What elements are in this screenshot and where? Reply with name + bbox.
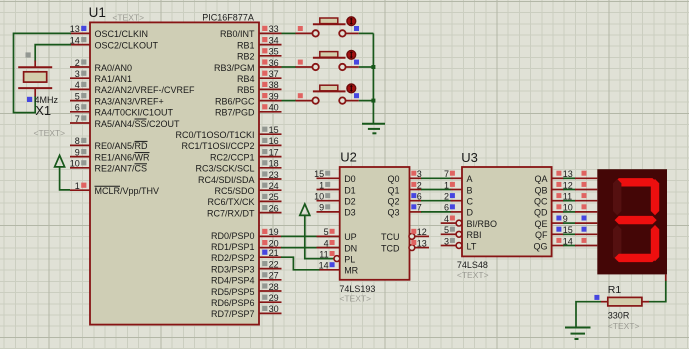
wire button 2 to ground bus xyxy=(359,66,375,68)
display pin d xyxy=(575,204,597,212)
wire button bus vertical xyxy=(372,33,374,123)
svg-text:OSC1/CLKIN: OSC1/CLKIN xyxy=(95,29,149,39)
U2 pin 7 (Q3) xyxy=(410,203,422,213)
svg-text:5: 5 xyxy=(324,227,329,237)
wire U3 QC to display xyxy=(563,200,576,202)
svg-text:MCLR/Vpp/THV: MCLR/Vpp/THV xyxy=(95,186,160,196)
svg-text:5: 5 xyxy=(75,91,80,101)
wire U1 pin to button 3 xyxy=(282,100,297,102)
svg-text:5: 5 xyxy=(444,225,449,235)
U1 pin 1 xyxy=(70,181,90,191)
wire U2 Q0 to U3 xyxy=(421,177,451,179)
ground symbol (R1) xyxy=(565,328,591,340)
U1 pin 37 xyxy=(259,69,282,79)
svg-text:PL: PL xyxy=(344,254,355,264)
wire U3 QG to display xyxy=(563,245,576,247)
svg-text:74LS48: 74LS48 xyxy=(457,260,488,270)
svg-text:RA3/AN3/VREF+: RA3/AN3/VREF+ xyxy=(95,96,164,106)
R1 marker xyxy=(594,295,599,300)
U1 pin 19 xyxy=(259,227,282,237)
svg-text:Q2: Q2 xyxy=(387,197,399,207)
U1 pin 2 xyxy=(70,58,90,68)
svg-text:RB5: RB5 xyxy=(237,85,255,95)
wire U1 pin to button 1 xyxy=(282,32,297,34)
svg-text:24: 24 xyxy=(269,181,279,191)
wire U2 Q2 to U3 xyxy=(421,200,451,202)
svg-text:QC: QC xyxy=(534,197,548,207)
svg-text:38: 38 xyxy=(269,80,279,90)
svg-text:<TEXT>: <TEXT> xyxy=(608,321,640,331)
svg-text:TCD: TCD xyxy=(381,243,400,253)
U1 pin 16 xyxy=(259,136,282,146)
crystal X1 <TEXT> label xyxy=(34,128,66,138)
svg-text:D: D xyxy=(467,208,474,218)
U3 pin 14 (QG) xyxy=(552,236,573,246)
U2 pin 11 (PL) bubble and stub xyxy=(319,249,340,261)
crystal X1 state marker bottom xyxy=(27,97,32,102)
svg-text:RA2/AN2/VREF-/CVREF: RA2/AN2/VREF-/CVREF xyxy=(95,85,196,95)
U2 pin 9 (D3) xyxy=(317,203,340,213)
display pin b xyxy=(575,182,597,190)
U1 pin 39 xyxy=(259,91,282,101)
svg-text:RD5/PSP5: RD5/PSP5 xyxy=(211,287,255,297)
U1 pin 29 xyxy=(259,293,282,303)
svg-text:28: 28 xyxy=(269,282,279,292)
svg-text:RC5/SDO: RC5/SDO xyxy=(214,186,254,196)
U1 reference label xyxy=(89,5,106,20)
U1 pin 36 xyxy=(259,58,282,68)
wire U3 QD to display xyxy=(563,211,576,213)
wire OSC2 pin14 to crystal top xyxy=(35,45,71,62)
U1 <TEXT> label xyxy=(112,13,144,23)
crystal X1 value label 4MHz xyxy=(35,95,59,105)
svg-text:40: 40 xyxy=(269,103,279,113)
svg-text:15: 15 xyxy=(314,169,324,179)
svg-text:A: A xyxy=(467,174,473,184)
display segment F (unlit) xyxy=(613,179,621,215)
U1 pin 18 xyxy=(259,159,282,169)
svg-text:<TEXT>: <TEXT> xyxy=(112,13,144,23)
svg-text:D0: D0 xyxy=(344,174,356,184)
svg-text:QE: QE xyxy=(534,219,547,229)
button 2 actuator xyxy=(347,50,356,59)
U3 pin 12 (QB) xyxy=(552,180,573,190)
U1 pin 5 xyxy=(70,91,90,101)
U2 pin 6 (Q2) xyxy=(410,192,422,202)
U3 reference label xyxy=(461,150,478,165)
U1 pin 21 xyxy=(259,248,282,258)
svg-text:U1: U1 xyxy=(89,5,106,20)
U2 pin 2 (Q1) xyxy=(410,180,422,190)
svg-text:6: 6 xyxy=(444,203,449,213)
button 1 actuator xyxy=(347,17,356,26)
wire OSC1 pin13 to crystal bottom xyxy=(14,33,72,112)
push button 1 xyxy=(296,18,359,37)
svg-text:R1: R1 xyxy=(608,284,622,296)
R1 value label 330R xyxy=(608,311,630,321)
svg-text:330R: 330R xyxy=(608,311,630,321)
svg-text:1: 1 xyxy=(319,180,324,190)
svg-text:MR: MR xyxy=(344,266,358,276)
svg-text:<TEXT>: <TEXT> xyxy=(34,128,66,138)
R1 <TEXT> label xyxy=(608,321,640,331)
svg-text:QA: QA xyxy=(534,174,547,184)
svg-text:3: 3 xyxy=(444,236,449,246)
svg-text:33: 33 xyxy=(269,24,279,34)
U2 left pin name labels xyxy=(344,174,358,276)
wire button 3 to ground bus xyxy=(359,100,375,102)
U1 pin 23 xyxy=(259,170,282,180)
svg-text:12: 12 xyxy=(417,227,427,237)
wire U1 pin19 (RD0) to U2 UP pin 5 xyxy=(281,235,340,237)
svg-text:2: 2 xyxy=(75,58,80,68)
U1 pin 40 xyxy=(259,103,282,113)
svg-text:RC6/TX/CK: RC6/TX/CK xyxy=(207,197,254,207)
svg-text:RC3/SCK/SCL: RC3/SCK/SCL xyxy=(195,164,254,174)
svg-text:11: 11 xyxy=(319,249,328,259)
svg-text:U3: U3 xyxy=(461,150,478,165)
power terminal (VCC arrow) at MCLR xyxy=(55,155,70,190)
svg-text:21: 21 xyxy=(269,248,279,258)
U1 pin 35 xyxy=(259,47,282,57)
svg-text:UP: UP xyxy=(344,232,357,242)
U2 pin 14 marker xyxy=(319,261,335,271)
svg-text:RB4: RB4 xyxy=(237,74,255,84)
7-segment display body xyxy=(597,169,667,274)
svg-text:7: 7 xyxy=(444,169,449,179)
svg-text:15: 15 xyxy=(269,125,279,135)
svg-text:QG: QG xyxy=(533,241,547,251)
svg-text:34: 34 xyxy=(269,35,279,45)
svg-text:RD3/PSP3: RD3/PSP3 xyxy=(211,264,255,274)
svg-text:4: 4 xyxy=(324,238,329,248)
U1 pin 7 xyxy=(70,114,90,124)
svg-text:Q1: Q1 xyxy=(387,185,399,195)
U2 pin 13 (TCD) xyxy=(409,238,429,250)
svg-text:74LS193: 74LS193 xyxy=(339,284,375,294)
U1 pin 3 xyxy=(70,69,90,79)
junction at button 2 output xyxy=(371,65,375,69)
svg-text:D2: D2 xyxy=(344,197,356,207)
svg-text:RB0/INT: RB0/INT xyxy=(220,29,255,39)
U1 pin 22 xyxy=(259,259,282,269)
U3 pin 10 (QD) xyxy=(552,203,573,213)
svg-text:<TEXT>: <TEXT> xyxy=(457,270,489,280)
push button 3 xyxy=(296,85,359,104)
wire U3 QE to display xyxy=(563,222,576,224)
svg-text:TCU: TCU xyxy=(381,232,400,242)
svg-text:QF: QF xyxy=(535,230,548,240)
button 3 right terminal marker xyxy=(354,93,359,98)
U3 part type label 74LS48 xyxy=(457,260,488,270)
display segment A (lit) xyxy=(615,178,657,186)
U1 pin 24 xyxy=(259,181,282,191)
U3 right pin name labels xyxy=(533,174,548,251)
svg-text:4: 4 xyxy=(75,80,80,90)
button 3 left terminal marker xyxy=(298,93,303,98)
button 3 actuator xyxy=(347,84,356,93)
svg-text:18: 18 xyxy=(269,159,279,169)
svg-text:LT: LT xyxy=(467,241,477,251)
svg-text:RB7/PGD: RB7/PGD xyxy=(215,108,255,118)
svg-text:30: 30 xyxy=(269,304,279,314)
U1 pin 34 xyxy=(259,35,282,45)
U1 pin 10 xyxy=(70,159,90,169)
svg-text:RB6/PGC: RB6/PGC xyxy=(215,96,255,106)
wire U3 QB to display xyxy=(563,189,576,191)
svg-text:RA4/T0CKI/C1OUT: RA4/T0CKI/C1OUT xyxy=(95,108,174,118)
svg-text:RD7/PSP7: RD7/PSP7 xyxy=(211,309,255,319)
svg-text:14: 14 xyxy=(70,35,80,45)
svg-text:RC4/SDI/SDA: RC4/SDI/SDA xyxy=(198,175,255,185)
U3 pin 15 (QF) xyxy=(552,225,573,235)
U2 pin 4 marker xyxy=(324,238,335,248)
display segment B (lit) xyxy=(651,179,659,215)
U1 left pin name labels xyxy=(95,29,196,196)
U2 pin 1 (D1) xyxy=(317,180,340,190)
U1 pin 13 xyxy=(70,24,90,34)
svg-text:RD0/PSP0: RD0/PSP0 xyxy=(211,231,255,241)
U1 pin 20 xyxy=(259,238,282,248)
svg-text:Q3: Q3 xyxy=(387,208,399,218)
svg-text:B: B xyxy=(467,185,473,195)
svg-text:PIC16F877A: PIC16F877A xyxy=(202,13,254,23)
svg-text:RBI: RBI xyxy=(467,230,482,240)
wire U3 QF to display xyxy=(563,233,576,235)
svg-text:OSC2/CLKOUT: OSC2/CLKOUT xyxy=(95,40,159,50)
U3 pin 1 xyxy=(444,180,462,190)
U3 pin 11 (QC) xyxy=(552,192,573,202)
display pin g xyxy=(575,238,597,246)
display pin f xyxy=(575,227,597,235)
U3 left pin name labels xyxy=(467,174,498,251)
U1 right pin name labels xyxy=(175,29,255,319)
svg-text:25: 25 xyxy=(269,192,279,202)
display segment C (lit) xyxy=(651,225,659,261)
svg-text:<TEXT>: <TEXT> xyxy=(339,294,371,304)
svg-text:10: 10 xyxy=(314,192,324,202)
wire button 1 to ground bus xyxy=(359,32,374,34)
svg-text:6: 6 xyxy=(75,103,80,113)
svg-text:U2: U2 xyxy=(340,149,357,164)
svg-text:RB2: RB2 xyxy=(237,52,255,62)
svg-text:14: 14 xyxy=(319,261,329,271)
U1 pin 30 xyxy=(259,304,282,314)
button 1 left terminal marker xyxy=(298,26,303,31)
svg-text:37: 37 xyxy=(269,69,279,79)
wire U1 pin21 (RD2) to U2 MR pin 14 xyxy=(281,257,340,270)
svg-text:13: 13 xyxy=(70,24,80,34)
display segment D (lit) xyxy=(615,254,657,262)
U1 part type label PIC16F877A xyxy=(202,13,254,23)
U1 pin 28 xyxy=(259,282,282,292)
wire U3 QA to display xyxy=(563,177,576,179)
svg-text:RE2/AN7/CS: RE2/AN7/CS xyxy=(95,164,148,174)
svg-text:26: 26 xyxy=(269,203,279,213)
button 2 right terminal marker xyxy=(354,60,359,65)
wire U1 pin to button 2 xyxy=(282,66,297,68)
svg-text:QB: QB xyxy=(534,185,547,195)
U1 pin 27 xyxy=(259,271,282,281)
U1 pin 8 xyxy=(70,136,90,146)
svg-text:9: 9 xyxy=(75,147,80,157)
svg-text:1: 1 xyxy=(75,181,80,191)
U3 pin 9 (QE) xyxy=(552,214,568,224)
U2 pin 10 (D2) xyxy=(314,192,340,202)
U2 pin 15 (D0) xyxy=(314,169,340,179)
svg-text:7: 7 xyxy=(75,114,80,124)
svg-text:Q0: Q0 xyxy=(387,174,399,184)
U3 pin 6 xyxy=(444,203,462,213)
svg-text:16: 16 xyxy=(269,136,279,146)
U2 reference label xyxy=(340,149,357,164)
svg-text:17: 17 xyxy=(269,147,279,157)
svg-text:X1: X1 xyxy=(35,103,51,118)
U3 pin 7 xyxy=(444,169,462,179)
svg-text:10: 10 xyxy=(70,159,80,169)
wire display common to R1 xyxy=(649,274,666,301)
svg-text:RD2/PSP2: RD2/PSP2 xyxy=(211,253,255,263)
svg-text:2: 2 xyxy=(444,192,449,202)
svg-text:22: 22 xyxy=(269,259,279,269)
wire U2 Q3 to U3 xyxy=(421,211,451,213)
U1 pin 14 xyxy=(70,35,90,45)
button 1 right terminal marker xyxy=(354,26,359,31)
U1 pin 33 xyxy=(259,24,282,34)
svg-text:RD1/PSP1: RD1/PSP1 xyxy=(211,242,255,252)
svg-text:19: 19 xyxy=(269,227,279,237)
svg-text:RC7/RX/DT: RC7/RX/DT xyxy=(207,208,255,218)
svg-text:C: C xyxy=(467,197,474,207)
button 2 left terminal marker xyxy=(298,60,303,65)
svg-text:35: 35 xyxy=(269,47,279,57)
svg-text:RB3/PGM: RB3/PGM xyxy=(214,63,255,73)
svg-text:DN: DN xyxy=(344,243,357,253)
svg-text:RC0/T1OSO/T1CKI: RC0/T1OSO/T1CKI xyxy=(175,130,254,140)
svg-text:RD6/PSP6: RD6/PSP6 xyxy=(211,298,255,308)
power terminal (VCC arrow) at U2 PL xyxy=(300,204,334,259)
IC U2 74LS193 body xyxy=(340,167,410,280)
display pin c xyxy=(575,193,597,201)
U2 right pin name labels xyxy=(381,174,400,253)
svg-text:13: 13 xyxy=(417,238,427,248)
U3 pin 13 (QA) xyxy=(552,169,573,179)
svg-text:D1: D1 xyxy=(344,185,356,195)
ground symbol (button bus) xyxy=(362,124,385,134)
display segment E (unlit) xyxy=(613,225,621,261)
svg-text:RA5/AN4/SS/C2OUT: RA5/AN4/SS/C2OUT xyxy=(95,119,181,129)
svg-text:RB1: RB1 xyxy=(237,40,255,50)
svg-text:RC2/CCP1: RC2/CCP1 xyxy=(210,152,255,162)
svg-text:RD4/PSP4: RD4/PSP4 xyxy=(211,276,255,286)
U3 pin 3 (LT) xyxy=(441,236,462,248)
crystal X1 xyxy=(18,61,52,97)
display segment G (lit) xyxy=(615,216,657,224)
svg-text:3: 3 xyxy=(75,69,80,79)
U3 pin 4 (BI/RBO) xyxy=(441,214,462,226)
U1 pin 17 xyxy=(259,147,282,157)
svg-text:D3: D3 xyxy=(344,208,356,218)
IC U3 74LS48 body xyxy=(462,167,552,256)
U1 pin 25 xyxy=(259,192,282,202)
U3 pin 2 xyxy=(444,192,462,202)
crystal X1 reference label xyxy=(35,103,51,118)
push button 2 xyxy=(296,52,359,71)
svg-text:23: 23 xyxy=(269,170,279,180)
U2 pin 5 marker xyxy=(324,227,335,237)
svg-text:RA1/AN1: RA1/AN1 xyxy=(95,74,133,84)
U3 <TEXT> label xyxy=(457,270,489,280)
svg-text:4: 4 xyxy=(444,214,449,224)
U3 pin 5 (RBI) xyxy=(441,225,462,237)
wire U1 pin20 (RD1) to U2 DN pin 4 xyxy=(281,247,340,249)
svg-text:RE0/AN5/RD: RE0/AN5/RD xyxy=(95,141,149,151)
U1 pin 26 xyxy=(259,203,282,213)
svg-text:8: 8 xyxy=(75,136,80,146)
resistor R1 xyxy=(601,297,650,306)
svg-text:20: 20 xyxy=(269,238,279,248)
svg-text:RA0/AN0: RA0/AN0 xyxy=(95,63,133,73)
U2 pin 3 (Q0) xyxy=(410,169,422,179)
wire R1 to ground xyxy=(576,302,601,328)
svg-text:1: 1 xyxy=(444,180,449,190)
svg-text:39: 39 xyxy=(269,91,279,101)
R1 reference label xyxy=(608,284,622,296)
U1 pin 38 xyxy=(259,80,282,90)
svg-text:29: 29 xyxy=(269,293,279,303)
junction at button 3 output xyxy=(371,99,375,103)
svg-text:BI/RBO: BI/RBO xyxy=(467,219,498,229)
crystal X1 state marker top xyxy=(26,52,31,57)
svg-text:9: 9 xyxy=(319,203,324,213)
svg-text:27: 27 xyxy=(269,271,279,281)
IC U1 PIC16F877A body xyxy=(90,22,259,324)
U2 part type label 74LS193 xyxy=(339,284,375,294)
U2 pin 12 (TCU) xyxy=(409,227,429,239)
svg-text:36: 36 xyxy=(269,58,279,68)
U1 pin 9 xyxy=(70,147,90,157)
U1 pin 15 xyxy=(259,125,282,135)
svg-text:RE1/AN6/WR: RE1/AN6/WR xyxy=(95,152,151,162)
U1 pin 4 xyxy=(70,80,90,90)
U2 <TEXT> label xyxy=(339,294,371,304)
wire U2 Q1 to U3 xyxy=(421,189,451,191)
U1 pin 6 xyxy=(70,103,90,113)
svg-text:RC1/T1OSI/CCP2: RC1/T1OSI/CCP2 xyxy=(181,141,254,151)
display pin a xyxy=(575,171,597,179)
display pin e xyxy=(575,216,597,224)
svg-text:QD: QD xyxy=(534,208,548,218)
